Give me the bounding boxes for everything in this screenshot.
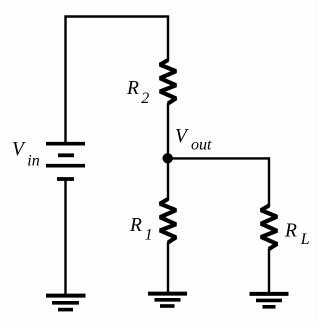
svg-text:V: V (12, 139, 26, 160)
svg-text:2: 2 (141, 90, 149, 107)
resistor RL zigzag (261, 206, 277, 250)
wire left vertical Vin top (64, 16, 66, 144)
ground right bar1 (250, 292, 289, 296)
ground left bar3 (58, 308, 73, 312)
battery V_in plate long bottom (46, 164, 85, 168)
wire node to RL horizontal (168, 157, 270, 159)
wire node to R1 (167, 158, 169, 200)
ground middle bar2 (155, 298, 181, 302)
wire R1 to ground (167, 242, 169, 294)
battery V_in plate short (58, 153, 74, 157)
wire right vertical to RL (268, 157, 270, 206)
ground left bar2 (52, 301, 79, 305)
resistor R1 zigzag (160, 199, 176, 243)
svg-text:V: V (175, 126, 189, 147)
wire middle vertical top to R2 (167, 16, 169, 62)
svg-text:R: R (284, 220, 297, 241)
wire middle R2 to node (167, 103, 169, 160)
battery V_in plate long top (46, 142, 85, 146)
svg-text:out: out (191, 136, 212, 153)
svg-text:1: 1 (145, 227, 153, 244)
node Vout junction dot (163, 153, 173, 163)
svg-text:in: in (27, 153, 39, 170)
wire left vertical below battery (64, 178, 66, 295)
ground middle bar3 (160, 304, 175, 308)
ground right bar3 (263, 305, 276, 309)
wire RL to ground (268, 249, 270, 294)
ground left bar1 (46, 294, 86, 298)
wire top horizontal from Vin to R2 (65, 15, 170, 17)
ground right bar2 (256, 299, 282, 303)
svg-text:R: R (126, 78, 139, 99)
svg-text:L: L (300, 231, 310, 248)
ground middle bar1 (148, 292, 187, 296)
resistor R2 zigzag (160, 60, 176, 104)
battery V_in plate short bottom (57, 177, 74, 181)
svg-text:R: R (129, 215, 142, 236)
